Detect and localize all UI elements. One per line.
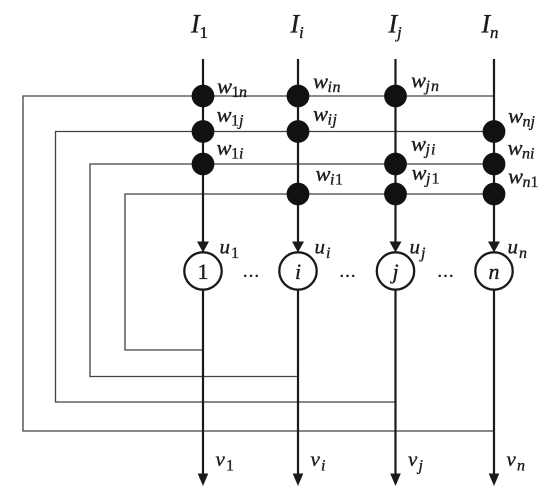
svg-text:i: i [299, 23, 304, 42]
svg-text:n: n [333, 79, 341, 96]
neuron circle i [279, 252, 316, 289]
wire column In input [493, 59, 495, 243]
svg-text:1: 1 [200, 23, 209, 42]
neuron circle j [377, 252, 414, 289]
weight dot wji [384, 153, 407, 176]
wire column j output [394, 290, 396, 477]
svg-text:n: n [517, 458, 525, 475]
feedback wire from neuron n (outer loop, row w*n) [23, 96, 494, 431]
weight dot wni [483, 153, 506, 176]
svg-text:n: n [239, 84, 247, 101]
svg-text:w: w [217, 135, 232, 160]
svg-text:w: w [316, 161, 331, 186]
weight dot wij [287, 120, 310, 143]
svg-text:...: ... [243, 261, 260, 282]
svg-text:1: 1 [198, 259, 209, 284]
svg-text:i: i [530, 146, 534, 163]
svg-text:i: i [321, 458, 325, 475]
svg-text:j: j [237, 113, 244, 130]
svg-text:w: w [508, 103, 523, 128]
svg-text:w: w [412, 160, 427, 185]
svg-text:w: w [313, 69, 328, 94]
weight dot wjn [384, 85, 407, 108]
svg-text:n: n [431, 78, 439, 95]
svg-text:u: u [315, 235, 326, 259]
output arrowhead vj [390, 474, 401, 487]
wire column Ii input [297, 59, 299, 243]
svg-text:i: i [328, 112, 332, 129]
svg-text:u: u [508, 235, 519, 259]
svg-text:j: j [529, 114, 536, 131]
svg-text:j: j [424, 142, 431, 159]
svg-text:1: 1 [231, 146, 239, 163]
svg-text:u: u [220, 235, 231, 259]
output arrowhead vn [489, 474, 500, 487]
svg-text:j: j [331, 112, 338, 129]
svg-text:i: i [326, 245, 330, 262]
feedback wire from neuron i (row w*i) [90, 164, 494, 377]
weight dot wj1 [384, 183, 407, 206]
wire column I1 input [202, 59, 204, 243]
svg-text:...: ... [339, 261, 356, 282]
svg-text:i: i [330, 172, 334, 189]
svg-text:w: w [508, 164, 523, 189]
weight dot w1n [192, 85, 215, 108]
output arrowhead v1 [198, 474, 209, 487]
weight dot wi1 [287, 183, 310, 206]
svg-text:v: v [311, 447, 321, 471]
svg-text:n: n [522, 146, 530, 163]
svg-text:1: 1 [432, 171, 440, 188]
wire column i output [297, 290, 299, 477]
output arrowhead vi [293, 474, 304, 487]
wire column n output [493, 290, 495, 477]
svg-text:n: n [523, 174, 531, 191]
svg-text:j: j [424, 78, 431, 95]
wire column Ij input [394, 59, 396, 243]
svg-text:n: n [490, 23, 499, 42]
arrowhead into neuron i [292, 242, 304, 253]
weight dot w1j [192, 120, 215, 143]
feedback wire from neuron 1 (row w*1) [125, 194, 494, 350]
feedback wire from neuron j (row w*j) [56, 132, 495, 403]
svg-text:w: w [313, 101, 328, 126]
wire column 1 output [202, 290, 204, 477]
svg-text:i: i [239, 146, 243, 163]
svg-text:j: j [417, 458, 424, 475]
svg-text:1: 1 [335, 172, 343, 189]
svg-text:n: n [489, 259, 500, 284]
svg-text:u: u [410, 235, 421, 259]
svg-text:w: w [217, 102, 232, 127]
weight dot win [287, 85, 310, 108]
svg-text:j: j [424, 171, 431, 188]
svg-text:1: 1 [231, 245, 239, 262]
svg-text:v: v [408, 447, 418, 471]
svg-text:j: j [395, 23, 402, 42]
svg-text:1: 1 [226, 458, 234, 475]
arrowhead into neuron n [488, 242, 500, 253]
svg-text:j: j [419, 245, 426, 262]
neuron circle 1 [184, 252, 221, 289]
arrowhead into neuron j [390, 242, 402, 253]
svg-text:w: w [411, 68, 426, 93]
neuron circle n [475, 252, 512, 289]
weight dot wn1 [483, 183, 506, 206]
svg-text:w: w [411, 131, 426, 156]
svg-text:i: i [295, 259, 301, 284]
svg-text:w: w [217, 74, 232, 99]
svg-text:n: n [519, 245, 527, 262]
svg-text:1: 1 [531, 174, 539, 191]
svg-text:v: v [216, 447, 226, 471]
weight dot wnj [483, 120, 506, 143]
svg-text:v: v [507, 447, 517, 471]
svg-text:n: n [523, 114, 531, 131]
svg-text:i: i [431, 142, 435, 159]
arrowhead into neuron 1 [197, 242, 209, 253]
weight dot w1i [192, 153, 215, 176]
svg-text:i: i [328, 79, 332, 96]
svg-text:w: w [508, 135, 523, 160]
svg-text:...: ... [437, 261, 454, 282]
svg-text:1: 1 [231, 113, 239, 130]
